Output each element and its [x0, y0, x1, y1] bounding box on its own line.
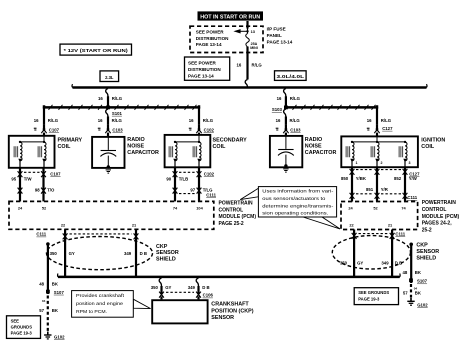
svg-text:S101: S101 — [112, 111, 123, 116]
svg-text:ous sensors/actuators to: ous sensors/actuators to — [262, 196, 325, 201]
svg-text:3.0L/4.0L: 3.0L/4.0L — [277, 74, 305, 79]
svg-text:BK: BK — [415, 291, 422, 296]
svg-text:SEE POWER: SEE POWER — [188, 61, 217, 66]
svg-text:POWERTRAIN: POWERTRAIN — [422, 200, 457, 206]
svg-text:SENSOR: SENSOR — [211, 315, 234, 321]
svg-text:852: 852 — [394, 176, 402, 181]
connector C111 label (right harness) — [356, 194, 418, 200]
svg-text:T/LB: T/LB — [179, 176, 189, 181]
2.3L feed drop from bus, 16 R/LG — [98, 89, 123, 107]
svg-text:C103: C103 — [112, 127, 123, 132]
svg-text:BK: BK — [415, 270, 422, 275]
svg-text:3: 3 — [409, 161, 411, 165]
svg-text:16: 16 — [367, 118, 372, 123]
connector C111 label (left harness) — [179, 192, 217, 197]
svg-text:52: 52 — [42, 205, 47, 210]
I/P fuse panel label — [267, 27, 293, 45]
splice S101 — [106, 106, 122, 116]
CKP sensor shield oval (3.0L/4.0L) — [332, 236, 439, 269]
main bus — [72, 84, 427, 88]
svg-text:SEE: SEE — [11, 318, 20, 323]
see grounds box (left) — [7, 316, 41, 339]
radio noise capacitor box (3.0L/4.0L) — [270, 136, 337, 172]
note * 12V (START OR RUN) — [60, 44, 132, 55]
see power distribution note (in fuse panel) — [196, 29, 229, 47]
arrow to fuse — [233, 29, 247, 33]
svg-text:determine engine/transmis-: determine engine/transmis- — [262, 203, 334, 208]
wire 350 GY PCM 22 to shield (2.3L) — [63, 229, 68, 276]
svg-text:R/LG: R/LG — [112, 118, 123, 123]
svg-text:16: 16 — [98, 96, 103, 101]
primary coil box — [9, 136, 83, 168]
svg-text:57: 57 — [403, 291, 408, 296]
PCM (2.3L) label — [219, 200, 257, 227]
wire to C107 primary coil, 16 R/LG — [34, 107, 60, 136]
svg-text:CAPACITOR: CAPACITOR — [127, 150, 159, 156]
svg-text:16: 16 — [237, 62, 242, 67]
svg-text:POSITION (CKP): POSITION (CKP) — [211, 308, 253, 314]
wire 98 T/O primary pin to PCM 52 — [35, 168, 55, 202]
svg-text:SEE GROUNDS: SEE GROUNDS — [358, 290, 389, 295]
svg-text:S103: S103 — [272, 107, 283, 112]
svg-text:25A: 25A — [251, 42, 258, 46]
ground G102 (3.0L/4.0L) — [407, 298, 428, 308]
svg-text:Y/R: Y/R — [381, 187, 389, 192]
svg-text:CONTROL: CONTROL — [219, 207, 244, 213]
svg-text:D B: D B — [140, 251, 147, 256]
svg-text:16: 16 — [189, 118, 194, 123]
svg-text:16: 16 — [34, 118, 39, 123]
ground G102 (2.3L) — [44, 332, 65, 340]
shield drain wire 48 BK (2.3L) — [39, 242, 59, 294]
takeout 349 DB to sensor — [188, 278, 210, 300]
wire to C103 radio noise capacitor (2.3L), 16 R/LG — [98, 109, 124, 137]
svg-text:SENSOR: SENSOR — [156, 250, 179, 256]
svg-text:Provides crankshaft: Provides crankshaft — [76, 293, 125, 298]
wire fuse to bus, 16 R/LG — [237, 47, 263, 88]
svg-text:R/LG: R/LG — [290, 96, 301, 101]
svg-text:DISTRIBUTION: DISTRIBUTION — [188, 67, 221, 72]
CKP sensor shield oval (2.3L) — [47, 237, 179, 270]
svg-text:104: 104 — [196, 205, 203, 210]
svg-text:90: 90 — [166, 176, 171, 181]
svg-text:GROUNDS: GROUNDS — [11, 324, 33, 329]
3.0L/4.0L feed drop from bus, 16 R/LG — [277, 89, 301, 107]
svg-text:851: 851 — [366, 187, 374, 192]
svg-text:R/LG: R/LG — [381, 118, 392, 123]
svg-text:RADIO: RADIO — [305, 137, 322, 143]
svg-text:97: 97 — [190, 187, 195, 192]
wire 90 T/LB secondary pin to PCM 74 — [166, 167, 188, 201]
wire 349 DB PCM 21 to shield (2.3L) — [134, 229, 139, 276]
svg-text:C111: C111 — [407, 195, 417, 200]
svg-text:C111: C111 — [206, 192, 216, 197]
CKP merge bus — [57, 274, 400, 278]
header HOT IN START OR RUN — [198, 11, 264, 20]
svg-text:Y/W: Y/W — [409, 176, 418, 181]
see power distribution box — [185, 57, 230, 80]
svg-text:C107: C107 — [50, 171, 61, 176]
svg-text:SEE POWER: SEE POWER — [196, 29, 225, 34]
svg-text:GY: GY — [69, 251, 75, 256]
svg-text:SHIELD: SHIELD — [416, 255, 436, 261]
ignition coil box — [341, 136, 445, 167]
svg-text:BK: BK — [52, 308, 59, 313]
svg-text:R/LG: R/LG — [112, 96, 123, 101]
wire 852 Y/W coil 3 to PCM 74 — [394, 167, 418, 201]
svg-text:RPM to PCM.: RPM to PCM. — [76, 309, 107, 314]
svg-text:PAGE 19-3: PAGE 19-3 — [11, 330, 33, 335]
fuse 25A MINI — [246, 21, 258, 50]
svg-text:2.3L: 2.3L — [105, 75, 114, 80]
3.0L/4.0L branch bus — [286, 105, 377, 107]
svg-text:98: 98 — [35, 187, 40, 192]
connector C107 tie line — [24, 171, 61, 176]
shield drain wire 48 BK (3.0L/4.0L) — [403, 243, 422, 284]
svg-text:RADIO: RADIO — [127, 137, 144, 143]
svg-text:PANEL: PANEL — [267, 33, 282, 38]
svg-text:25-2: 25-2 — [422, 227, 432, 233]
svg-text:GY: GY — [357, 260, 363, 265]
svg-text:sion operating conditions.: sion operating conditions. — [262, 211, 328, 216]
svg-text:C111: C111 — [36, 232, 46, 237]
svg-text:52: 52 — [373, 205, 378, 210]
wire 57 BK to G102 (3.0L/4.0L) — [403, 284, 422, 298]
wire to C127 ignition coil, 16 R/LG — [367, 107, 393, 137]
svg-text:R/LG: R/LG — [290, 118, 301, 123]
engine label 3.0L/4.0L — [275, 71, 307, 81]
wire 350 GY PCM 22 to shield (3.0L/4.0L) — [352, 230, 357, 277]
svg-text:21: 21 — [388, 222, 393, 227]
svg-text:16: 16 — [98, 118, 103, 123]
svg-text:21: 21 — [132, 222, 137, 227]
svg-text:CAPACITOR: CAPACITOR — [305, 150, 337, 156]
svg-text:48: 48 — [403, 270, 408, 275]
svg-text:349: 349 — [124, 251, 132, 256]
svg-text:R/LG: R/LG — [203, 118, 214, 123]
svg-text:04: 04 — [42, 299, 46, 303]
svg-text:C127: C127 — [382, 126, 393, 131]
svg-text:S107: S107 — [54, 290, 65, 295]
connector C102 tie line — [179, 171, 215, 176]
secondary coil box — [165, 135, 248, 168]
svg-text:POWERTRAIN: POWERTRAIN — [219, 200, 254, 206]
svg-text:CRANKSHAFT: CRANKSHAFT — [211, 302, 249, 308]
svg-text:R/LG: R/LG — [48, 118, 59, 123]
svg-text:T/O: T/O — [47, 187, 55, 192]
svg-text:S107: S107 — [417, 279, 428, 284]
svg-text:T/W: T/W — [24, 176, 33, 181]
svg-text:PRIMARY: PRIMARY — [58, 138, 83, 144]
svg-text:SECONDARY: SECONDARY — [213, 138, 248, 144]
svg-text:PAGES 24-2,: PAGES 24-2, — [422, 221, 453, 227]
svg-text:NOISE: NOISE — [305, 143, 322, 149]
callout: provides crankshaft note — [72, 291, 151, 318]
svg-text:16: 16 — [276, 118, 281, 123]
svg-text:850: 850 — [341, 176, 349, 181]
svg-text:BK: BK — [52, 281, 59, 286]
svg-text:CONTROL: CONTROL — [422, 207, 447, 213]
svg-text:24: 24 — [348, 205, 353, 210]
svg-text:* 12V (START OR RUN): * 12V (START OR RUN) — [64, 48, 129, 53]
svg-text:CKP: CKP — [416, 243, 428, 249]
wire 851 Y/R coil 2 to PCM 52 — [366, 167, 389, 201]
svg-text:C102: C102 — [204, 171, 215, 176]
svg-text:PAGE 19-3: PAGE 19-3 — [358, 297, 380, 302]
see grounds box (right) — [354, 288, 398, 305]
svg-text:I/P FUSE: I/P FUSE — [267, 27, 286, 32]
PCM (3.0L/4.0L) dashed box — [341, 202, 418, 230]
svg-text:13: 13 — [251, 29, 256, 34]
svg-text:MINI: MINI — [250, 46, 258, 50]
svg-text:16: 16 — [277, 96, 282, 101]
svg-text:22: 22 — [349, 222, 354, 227]
svg-text:COIL: COIL — [213, 144, 227, 150]
svg-text:G102: G102 — [54, 334, 65, 339]
svg-text:DISTRIBUTION: DISTRIBUTION — [196, 36, 229, 41]
svg-text:R/LG: R/LG — [252, 62, 263, 67]
2.3L branch bus — [44, 105, 199, 107]
svg-text:1: 1 — [356, 161, 358, 165]
svg-text:C106: C106 — [203, 293, 214, 298]
svg-text:C107: C107 — [49, 127, 60, 132]
wire to C102 secondary coil, 16 R/LG — [189, 107, 215, 135]
svg-text:350: 350 — [340, 260, 348, 265]
svg-text:IGNITION: IGNITION — [421, 138, 445, 144]
svg-text:95: 95 — [11, 176, 16, 181]
wire 97 T/LG secondary pin to PCM 104 — [190, 167, 213, 201]
svg-text:57: 57 — [39, 308, 44, 313]
radio noise capacitor box (2.3L) — [92, 137, 159, 173]
engine label 2.3L — [100, 71, 119, 82]
svg-text:COIL: COIL — [421, 144, 435, 150]
svg-text:position and engine: position and engine — [76, 301, 123, 306]
svg-text:48: 48 — [39, 281, 44, 286]
svg-text:2: 2 — [381, 161, 383, 165]
svg-text:PAGE 13-14: PAGE 13-14 — [196, 42, 222, 47]
wire 349 DB PCM 21 to shield (3.0L/4.0L) — [390, 230, 395, 277]
connector C127 tie line (below coil) — [356, 170, 420, 177]
wire to C103 radio noise capacitor (3.0L/4.0L), 16 R/LG — [276, 109, 302, 136]
svg-text:PAGE 13-14: PAGE 13-14 — [188, 74, 214, 79]
splice S107 (2.3L) — [46, 290, 64, 295]
svg-text:Uses information from vari-: Uses information from vari- — [262, 189, 334, 194]
svg-text:COIL: COIL — [58, 144, 72, 150]
svg-text:349: 349 — [381, 260, 389, 265]
svg-text:350: 350 — [151, 285, 159, 290]
svg-text:74: 74 — [173, 205, 178, 210]
svg-text:22: 22 — [61, 222, 66, 227]
svg-text:SHIELD: SHIELD — [156, 257, 176, 263]
takeout 350 GY to sensor — [151, 278, 172, 300]
connector C106 — [166, 292, 213, 297]
svg-text:SENSOR: SENSOR — [416, 249, 439, 255]
wire 95 T/W primary pin to PCM 24 — [11, 168, 32, 202]
callout: uses information note — [240, 187, 340, 229]
splice S107 (3.0L/4.0L) — [409, 278, 428, 283]
svg-text:NOISE: NOISE — [127, 143, 144, 149]
svg-text:HOT IN START OR RUN: HOT IN START OR RUN — [200, 15, 260, 21]
svg-text:350: 350 — [50, 251, 58, 256]
svg-text:PAGE 13-14: PAGE 13-14 — [267, 40, 293, 45]
crankshaft position sensor box — [152, 300, 254, 323]
wire 850 Y/BK coil 1 to PCM 24 — [341, 167, 367, 201]
svg-text:CKP: CKP — [156, 244, 168, 250]
svg-text:C111: C111 — [395, 232, 405, 237]
connector C111 (2.3L PCM) — [36, 232, 131, 237]
PCM (2.3L) dashed box — [9, 201, 214, 229]
svg-text:Y/BK: Y/BK — [356, 176, 367, 181]
svg-text:PAGE 25-2: PAGE 25-2 — [219, 221, 244, 227]
svg-text:D B: D B — [395, 260, 402, 265]
svg-text:MODULE (PCM): MODULE (PCM) — [422, 214, 460, 220]
svg-text:D B: D B — [202, 285, 209, 290]
svg-text:MODULE (PCM): MODULE (PCM) — [219, 214, 257, 220]
svg-text:G102: G102 — [417, 302, 428, 307]
svg-text:C102: C102 — [204, 127, 215, 132]
I/P fuse panel dashed box — [190, 26, 263, 52]
wire 57 BK to G102 (2.3L) — [39, 296, 59, 332]
connector C111 (3.0L/4.0L PCM) — [359, 232, 406, 237]
splice S103 — [272, 106, 288, 113]
svg-text:24: 24 — [18, 205, 23, 210]
PCM (3.0L/4.0L) label — [422, 200, 460, 233]
svg-text:C127: C127 — [409, 172, 420, 177]
svg-text:349: 349 — [188, 285, 196, 290]
svg-text:74: 74 — [401, 205, 406, 210]
svg-text:C103: C103 — [290, 127, 301, 132]
svg-text:GY: GY — [165, 285, 171, 290]
